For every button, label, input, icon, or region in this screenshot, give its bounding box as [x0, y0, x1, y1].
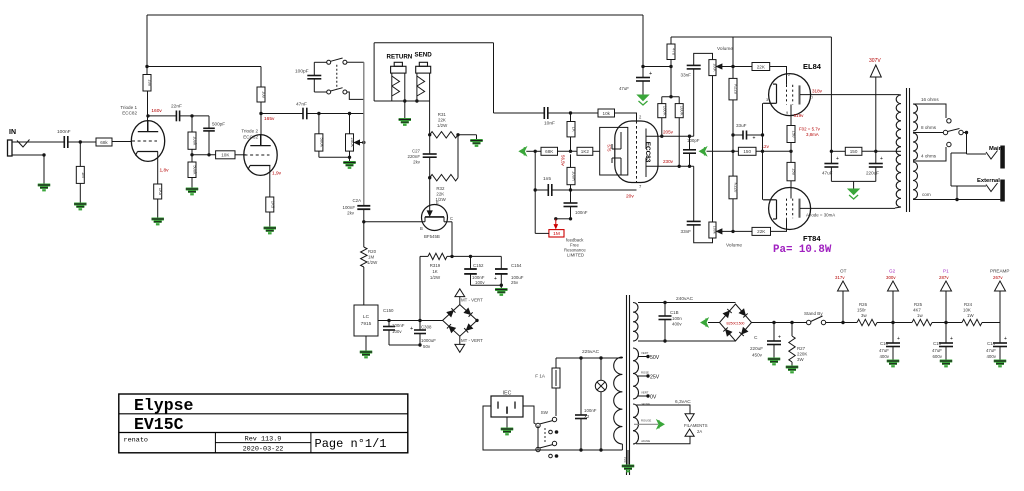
svg-text:8 ohms: 8 ohms	[921, 125, 937, 130]
svg-text:16 ohms: 16 ohms	[921, 97, 939, 102]
svg-text:165v: 165v	[264, 116, 275, 122]
svg-text:SEND: SEND	[415, 52, 433, 59]
svg-text:220nF: 220nF	[408, 154, 421, 159]
svg-text:VERT: VERT	[641, 351, 649, 355]
svg-text:318v: 318v	[812, 89, 823, 94]
svg-text:K220: K220	[734, 183, 739, 193]
svg-text:500K: 500K	[319, 138, 324, 148]
svg-text:F02 = 5.7v: F02 = 5.7v	[799, 127, 821, 132]
svg-text:317v: 317v	[835, 275, 845, 280]
svg-text:IN: IN	[9, 129, 16, 136]
svg-text:470: 470	[672, 48, 677, 56]
svg-text:+: +	[753, 136, 756, 142]
svg-text:ECC82: ECC82	[243, 135, 258, 140]
svg-text:1000uF: 1000uF	[421, 338, 436, 343]
svg-text:R27: R27	[797, 346, 806, 351]
svg-text:JAUNE: JAUNE	[641, 439, 650, 443]
svg-text:+: +	[897, 336, 900, 342]
svg-text:1W: 1W	[967, 313, 974, 318]
svg-text:100nF: 100nF	[584, 408, 597, 413]
svg-text:307V: 307V	[869, 58, 881, 64]
svg-text:400v: 400v	[986, 354, 996, 359]
svg-text:+: +	[950, 336, 953, 342]
svg-text:B: B	[420, 226, 423, 231]
svg-text:1,9v: 1,9v	[272, 171, 282, 177]
svg-text:300v: 300v	[886, 275, 896, 280]
svg-text:Volume: Volume	[726, 243, 742, 249]
svg-text:100K: 100K	[713, 226, 717, 235]
svg-text:100pF: 100pF	[687, 138, 700, 143]
svg-text:267v: 267v	[993, 275, 1003, 280]
svg-text:225vAC: 225vAC	[582, 349, 600, 355]
svg-text:1K5: 1K5	[270, 201, 275, 209]
svg-text:150: 150	[850, 149, 858, 154]
svg-text:22K: 22K	[436, 192, 444, 197]
svg-text:Rev 113.9: Rev 113.9	[245, 436, 282, 444]
svg-text:Main: Main	[989, 146, 1003, 152]
svg-text:47uF: 47uF	[986, 348, 996, 353]
svg-text:+: +	[410, 326, 413, 332]
svg-text:1,8v: 1,8v	[160, 167, 170, 173]
svg-text:Stand By: Stand By	[804, 311, 823, 316]
svg-text:100nF: 100nF	[575, 210, 588, 215]
svg-text:400v: 400v	[672, 322, 682, 327]
svg-text:500k: 500k	[193, 165, 198, 175]
svg-text:150: 150	[792, 168, 797, 176]
svg-text:R26: R26	[859, 302, 868, 307]
svg-text:205v: 205v	[663, 130, 674, 135]
svg-text:+: +	[494, 276, 497, 282]
svg-text:Pa= 10.8W: Pa= 10.8W	[773, 244, 832, 256]
svg-text:100v: 100v	[392, 329, 402, 334]
svg-text:1K: 1K	[572, 127, 577, 132]
svg-text:100: 100	[262, 91, 267, 99]
svg-text:230v: 230v	[663, 159, 674, 164]
svg-text:100k: 100k	[193, 136, 198, 146]
svg-text:PVC: PVC	[623, 457, 627, 463]
svg-text:10k: 10k	[603, 111, 611, 116]
svg-text:C27: C27	[412, 149, 421, 154]
svg-text:100n: 100n	[672, 316, 682, 321]
svg-text:3,8mA: 3,8mA	[806, 132, 819, 137]
svg-text:160v: 160v	[151, 108, 162, 114]
svg-text:1/2W: 1/2W	[367, 260, 378, 265]
svg-text:20v: 20v	[626, 194, 634, 200]
svg-text:68K: 68K	[545, 149, 554, 154]
svg-text:3W: 3W	[797, 357, 804, 362]
svg-text:100K: 100K	[680, 106, 685, 116]
svg-text:47nF: 47nF	[296, 102, 307, 108]
svg-text:575: 575	[607, 145, 612, 153]
svg-text:VERT: VERT	[641, 391, 649, 395]
svg-text:1M: 1M	[368, 255, 374, 260]
svg-text:2A: 2A	[697, 429, 702, 434]
svg-text:RETURN: RETURN	[387, 54, 413, 61]
svg-text:1w: 1w	[917, 313, 923, 318]
svg-text:G2: G2	[889, 269, 896, 274]
svg-text:Elypse: Elypse	[134, 396, 194, 415]
svg-text:LC: LC	[363, 314, 370, 320]
svg-text:25v: 25v	[511, 280, 519, 285]
svg-text:IEC: IEC	[503, 391, 512, 397]
svg-text:OT: OT	[840, 269, 847, 274]
svg-text:7915: 7915	[361, 321, 372, 327]
svg-text:1M: 1M	[81, 172, 86, 178]
svg-text:100nF: 100nF	[392, 323, 405, 328]
svg-text:100R: 100R	[572, 171, 577, 181]
svg-text:K220: K220	[734, 84, 739, 94]
svg-text:100K: 100K	[713, 63, 717, 72]
svg-text:33nF: 33nF	[681, 229, 692, 234]
svg-text:SW: SW	[541, 410, 549, 415]
svg-text:500pF: 500pF	[212, 122, 225, 127]
svg-text:100pF: 100pF	[295, 69, 309, 75]
svg-text:47uF: 47uF	[619, 86, 629, 91]
svg-text:C14: C14	[987, 341, 996, 346]
svg-text:C: C	[754, 335, 758, 341]
svg-text:450v: 450v	[752, 353, 763, 358]
svg-text:10K: 10K	[221, 153, 230, 158]
svg-text:E: E	[436, 200, 439, 205]
svg-text:R31: R31	[438, 112, 447, 117]
svg-text:33uF: 33uF	[736, 123, 747, 128]
svg-text:1/2W: 1/2W	[430, 275, 441, 280]
svg-text:100: 100	[148, 79, 153, 87]
svg-text:2020-03-22: 2020-03-22	[243, 446, 284, 454]
svg-text:22K: 22K	[757, 229, 766, 234]
svg-text:100nF: 100nF	[57, 129, 71, 135]
svg-text:EL84: EL84	[803, 62, 822, 71]
svg-text:+: +	[778, 335, 781, 341]
svg-text:P1: P1	[943, 269, 949, 274]
svg-text:0V: 0V	[650, 395, 657, 401]
svg-text:+: +	[1004, 336, 1007, 342]
svg-text:220uF: 220uF	[866, 171, 879, 176]
svg-text:+: +	[649, 71, 652, 77]
svg-text:C16: C16	[880, 341, 889, 346]
svg-text:C308: C308	[421, 325, 432, 330]
svg-text:1M: 1M	[553, 231, 560, 237]
svg-text:F 1A: F 1A	[535, 374, 546, 379]
svg-text:FILAMENTS: FILAMENTS	[684, 423, 708, 428]
svg-text:ECC83: ECC83	[644, 142, 651, 163]
svg-text:25V: 25V	[650, 375, 660, 381]
svg-text:2kv: 2kv	[347, 211, 355, 216]
svg-text:1n5: 1n5	[543, 176, 551, 182]
svg-text:50V: 50V	[650, 355, 660, 361]
svg-text:150: 150	[743, 149, 751, 154]
svg-text:150r: 150r	[857, 308, 866, 313]
svg-text:PREAMP: PREAMP	[990, 269, 1009, 274]
svg-text:C15: C15	[933, 341, 942, 346]
svg-text:1K5: 1K5	[158, 188, 163, 196]
svg-text:400v: 400v	[879, 354, 889, 359]
svg-text:EV15C: EV15C	[134, 415, 184, 434]
svg-text:renato: renato	[124, 437, 148, 445]
svg-text:68k: 68k	[100, 140, 108, 145]
svg-text:X2: X2	[584, 414, 590, 419]
svg-text:6,3vAC: 6,3vAC	[675, 399, 691, 405]
svg-text:1K2: 1K2	[581, 149, 590, 154]
svg-text:Anode = 30mA: Anode = 30mA	[806, 213, 835, 218]
svg-text:600v: 600v	[932, 354, 942, 359]
svg-text:B250C1500: B250C1500	[727, 322, 745, 326]
svg-text:C154: C154	[511, 263, 522, 268]
svg-text:240vAC: 240vAC	[676, 296, 694, 302]
svg-text:ROSE: ROSE	[641, 371, 649, 375]
svg-text:C2A: C2A	[352, 198, 361, 203]
svg-text:ROUGE: ROUGE	[641, 419, 651, 423]
svg-text:JAUNE: JAUNE	[641, 402, 650, 406]
svg-text:22K: 22K	[757, 64, 766, 69]
svg-text:R32: R32	[436, 186, 445, 191]
svg-text:+: +	[836, 156, 839, 162]
svg-text:Volume: Volume	[717, 46, 733, 52]
svg-text:R24: R24	[964, 302, 973, 307]
svg-text:C: C	[450, 216, 453, 221]
svg-text:100nF: 100nF	[343, 205, 356, 210]
svg-text:33nF: 33nF	[681, 73, 692, 78]
svg-text:47uF: 47uF	[932, 348, 942, 353]
svg-text:Triode 2: Triode 2	[241, 129, 258, 134]
svg-text:22nF: 22nF	[171, 104, 182, 110]
svg-text:220uF: 220uF	[750, 346, 763, 351]
svg-text:C150: C150	[383, 308, 394, 313]
svg-text:150: 150	[792, 131, 797, 139]
svg-text:47uF: 47uF	[879, 348, 889, 353]
svg-text:C152: C152	[473, 263, 484, 268]
svg-text:LIMITED: LIMITED	[567, 253, 584, 258]
svg-text:3w: 3w	[861, 313, 867, 318]
svg-text:10K: 10K	[963, 308, 971, 313]
svg-text:MT - VERT: MT - VERT	[461, 298, 483, 303]
svg-text:External: External	[977, 178, 1000, 184]
svg-text:R319: R319	[430, 263, 441, 268]
svg-text:220K: 220K	[797, 352, 807, 357]
svg-text:22K: 22K	[438, 118, 446, 123]
svg-text:ECC82: ECC82	[122, 111, 137, 116]
svg-text:Triode 1: Triode 1	[120, 105, 137, 110]
svg-text:BF545B: BF545B	[424, 234, 440, 239]
svg-text:100K: 100K	[662, 106, 667, 116]
svg-text:2kv: 2kv	[413, 160, 421, 165]
svg-text:R25: R25	[914, 302, 923, 307]
svg-text:10nF: 10nF	[544, 121, 555, 127]
svg-text:50v: 50v	[423, 344, 431, 349]
svg-text:MT - VERT: MT - VERT	[461, 338, 483, 343]
svg-text:FT84: FT84	[803, 234, 821, 243]
svg-text:4 ohms: 4 ohms	[921, 154, 937, 159]
svg-text:319v: 319v	[794, 113, 805, 118]
svg-text:1K: 1K	[432, 269, 437, 274]
svg-text:100v: 100v	[475, 280, 485, 285]
svg-text:+: +	[880, 156, 883, 162]
svg-text:C1B: C1B	[670, 310, 679, 315]
svg-text:4K7: 4K7	[913, 308, 921, 313]
svg-text:Page n°1/1: Page n°1/1	[315, 437, 387, 451]
svg-text:1/2W: 1/2W	[437, 123, 448, 128]
svg-text:287v: 287v	[939, 275, 949, 280]
svg-text:R20: R20	[368, 249, 377, 254]
svg-text:56,5v: 56,5v	[561, 155, 566, 167]
svg-text:com: com	[922, 192, 931, 197]
